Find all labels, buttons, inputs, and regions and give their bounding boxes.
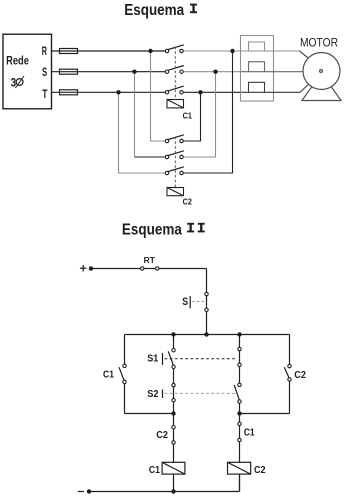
svg-text:Rede: Rede (6, 55, 29, 67)
svg-text:Esquema: Esquema (122, 221, 182, 238)
svg-text:RT: RT (144, 256, 155, 265)
svg-text:C2: C2 (156, 429, 168, 441)
svg-text:S: S (42, 65, 47, 79)
svg-text:R: R (42, 44, 47, 58)
svg-text:C1: C1 (183, 110, 193, 120)
svg-text:S: S (182, 296, 188, 308)
svg-text:Esquema: Esquema (124, 2, 184, 19)
svg-text:T: T (42, 87, 48, 101)
svg-text:C2: C2 (183, 197, 193, 207)
svg-text:C2: C2 (254, 464, 266, 476)
svg-text:S2: S2 (147, 388, 158, 400)
svg-text:C1: C1 (149, 464, 160, 476)
svg-text:MOTOR: MOTOR (300, 38, 338, 50)
svg-text:C1: C1 (103, 369, 114, 381)
svg-text:S1: S1 (147, 353, 158, 365)
svg-text:C1: C1 (244, 427, 255, 439)
svg-text:C2: C2 (294, 369, 306, 381)
